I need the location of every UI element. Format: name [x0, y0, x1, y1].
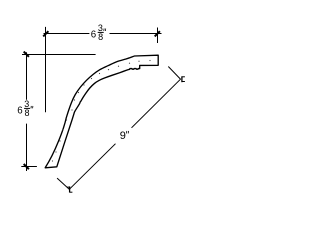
- ceiling line: [22, 54, 96, 56]
- svg-text:8: 8: [98, 32, 103, 42]
- diag marker bottom: [69, 186, 71, 192]
- diagonal dimension line lower segment: [69, 144, 115, 190]
- left dimension line lower segment: [26, 124, 28, 171]
- top dimension line right segment: [110, 33, 162, 35]
- diagonal extension line bottom: [57, 178, 69, 189]
- diagonal extension line top: [168, 67, 180, 80]
- right extension line: [157, 28, 159, 44]
- tick top-right: [155, 31, 160, 36]
- top dimension line left segment: [44, 33, 90, 35]
- top dimension text 6 3/8": [91, 23, 106, 42]
- tick left-bottom: [24, 164, 29, 169]
- tick top-left: [43, 31, 48, 36]
- diagonal dimension line upper segment: [132, 79, 181, 128]
- left dimension text 6 3/8": [17, 99, 33, 118]
- svg-text:6: 6: [91, 29, 96, 40]
- svg-text:6: 6: [17, 106, 22, 117]
- stipple dots: [52, 60, 151, 162]
- left dimension line upper segment: [26, 52, 28, 100]
- diagonal dimension text 9": [120, 130, 129, 142]
- svg-text:9: 9: [120, 130, 126, 142]
- bottom extension line: [21, 166, 37, 168]
- wall line: [45, 27, 47, 112]
- diag marker top: [181, 76, 183, 82]
- tick left-top: [24, 52, 29, 57]
- molding profile outline: [45, 55, 158, 168]
- svg-text:8: 8: [25, 108, 30, 118]
